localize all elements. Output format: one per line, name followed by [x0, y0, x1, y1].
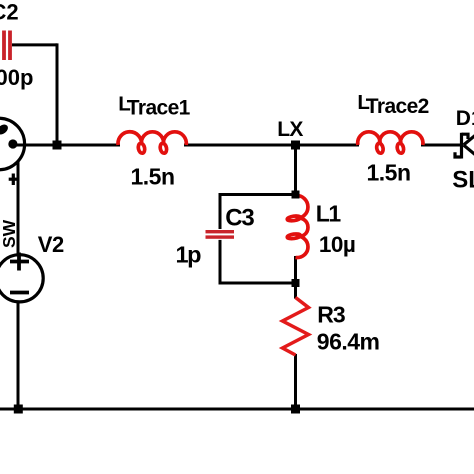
svg-text:SL2: SL2 [452, 166, 474, 193]
svg-text:D1: D1 [456, 107, 474, 130]
svg-text:SW: SW [0, 219, 19, 248]
svg-text:96.4m: 96.4m [317, 328, 380, 354]
svg-text:L1: L1 [316, 201, 342, 227]
svg-text:R3: R3 [317, 301, 345, 327]
svg-text:C2: C2 [0, 0, 19, 25]
svg-text:LX: LX [277, 118, 303, 141]
svg-text:10µ: 10µ [319, 232, 356, 257]
svg-text:C3: C3 [225, 205, 254, 232]
svg-text:V2: V2 [38, 232, 64, 257]
svg-text:1p: 1p [176, 242, 202, 268]
svg-text:Trace1: Trace1 [127, 97, 191, 120]
svg-text:Trace2: Trace2 [366, 95, 429, 118]
svg-text:00p: 00p [0, 65, 33, 90]
svg-text:1.5n: 1.5n [131, 163, 175, 189]
svg-text:1.5n: 1.5n [367, 159, 411, 185]
